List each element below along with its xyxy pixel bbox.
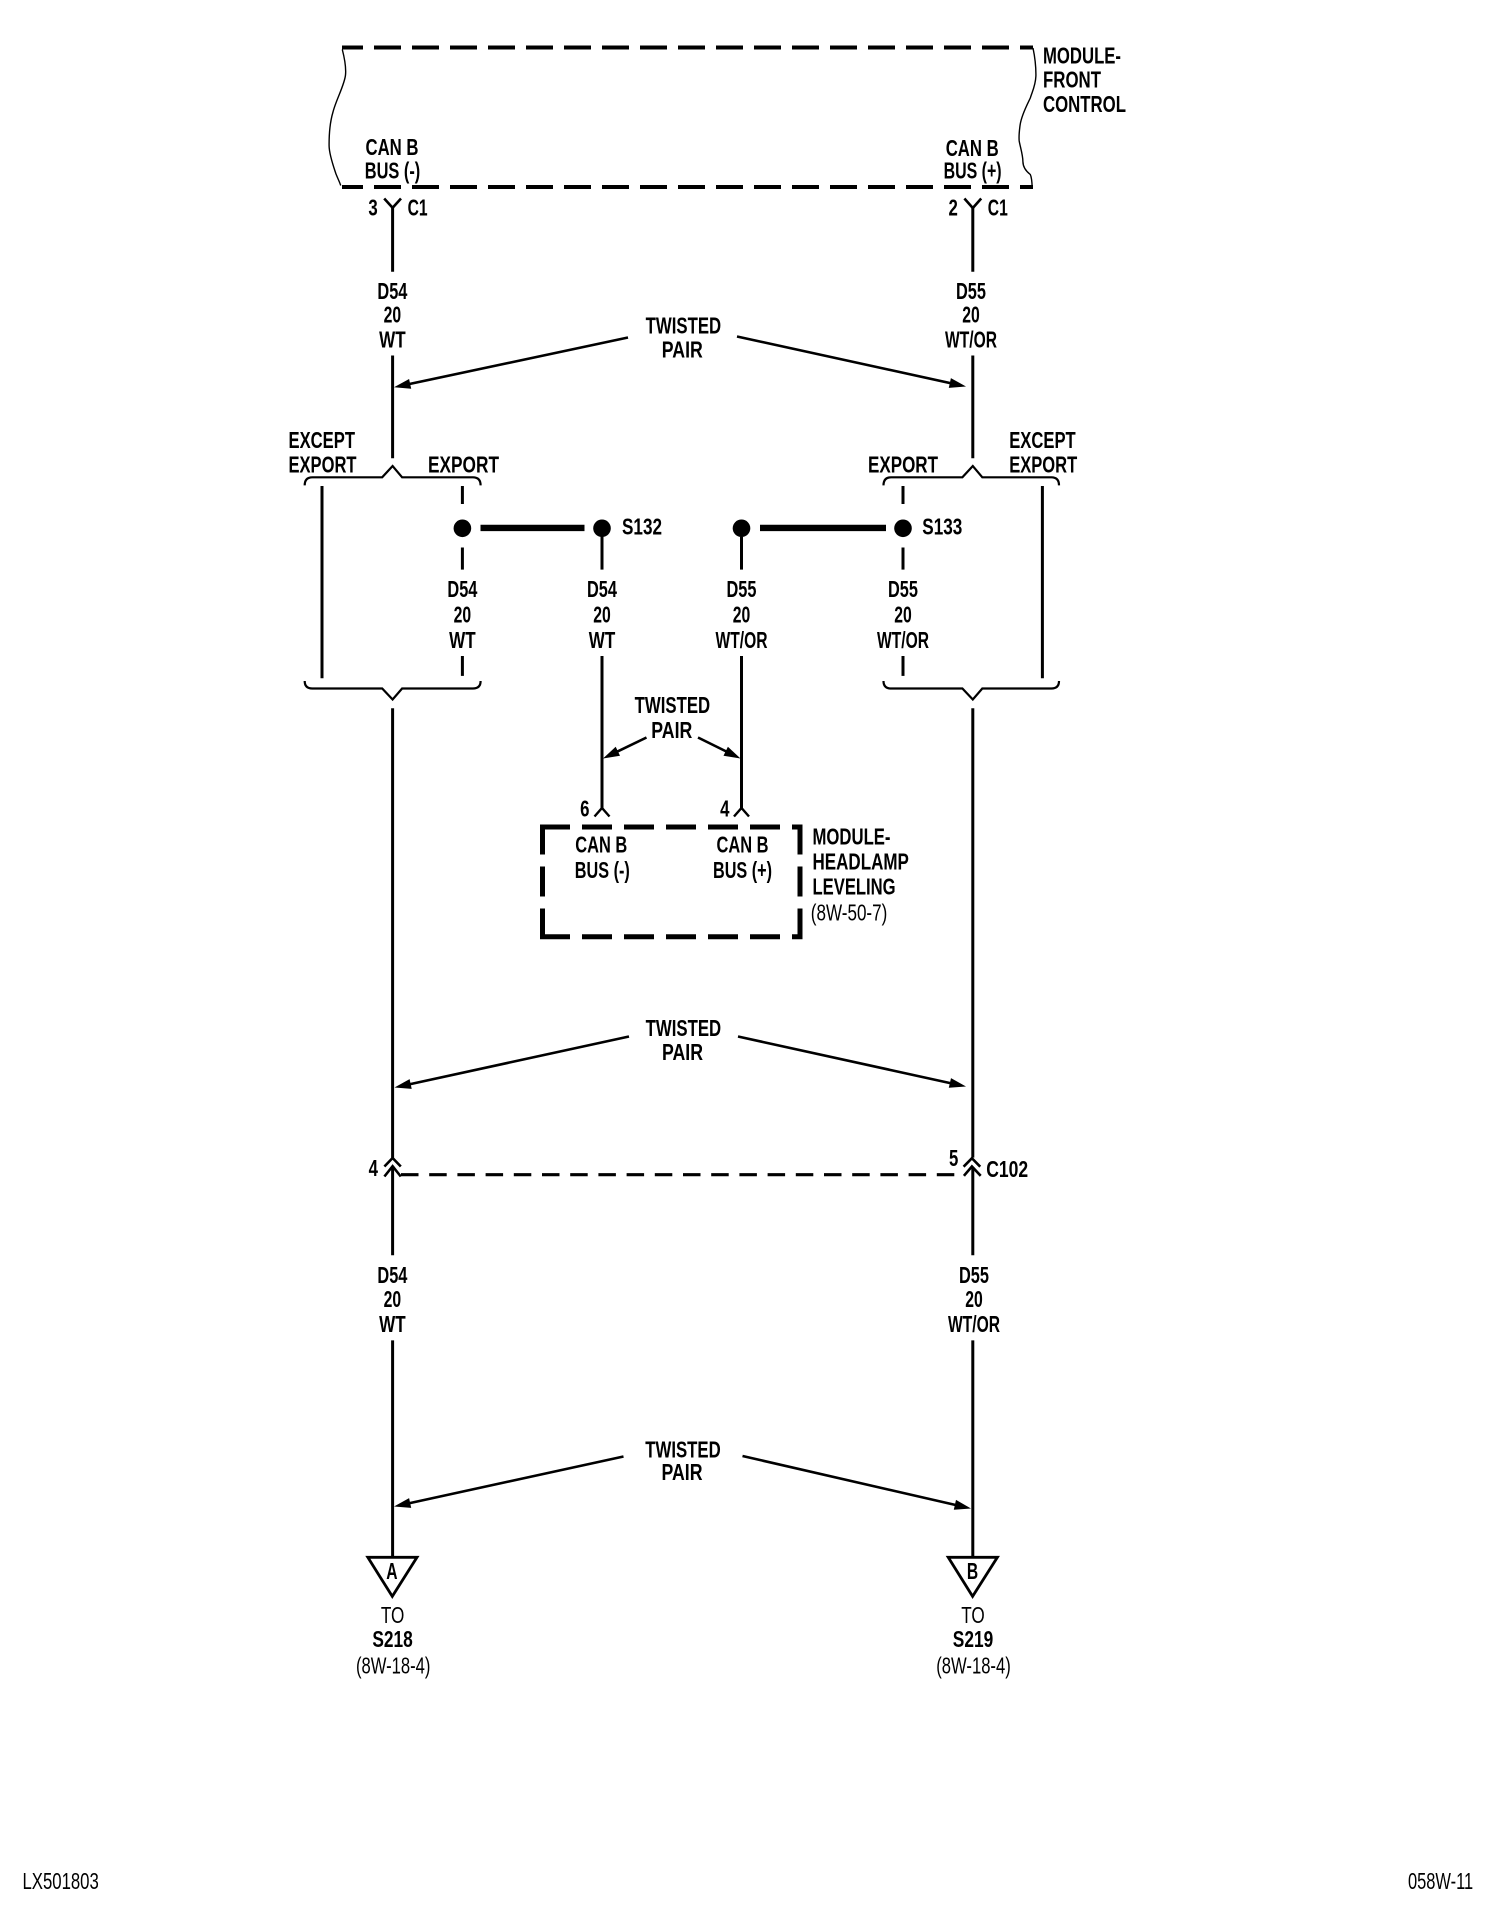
svg-text:FRONT: FRONT <box>1043 66 1101 92</box>
pin label CAN B BUS (-) headlamp <box>575 831 630 883</box>
svg-text:BUS (-): BUS (-) <box>365 158 421 184</box>
off-page triangle B <box>948 1557 997 1596</box>
twisted pair 2 left arrow <box>603 738 647 759</box>
svg-text:EXPORT: EXPORT <box>289 452 357 478</box>
wire D55 lower segment 2 <box>971 1340 974 1557</box>
wire D54 upper segment 2 <box>391 356 394 459</box>
svg-text:2: 2 <box>949 196 958 221</box>
svg-text:WT: WT <box>379 327 406 353</box>
wire tap to pin 4 segments <box>740 537 743 808</box>
svg-text:PAIR: PAIR <box>662 1039 703 1065</box>
wire except-export branch left <box>321 486 324 678</box>
twisted pair 3 right arrow <box>738 1037 966 1088</box>
connector C1 pin 2 symbol <box>964 199 981 209</box>
connector pin 6 symbol <box>595 808 610 817</box>
svg-text:WT: WT <box>589 627 616 653</box>
svg-text:PAIR: PAIR <box>662 1459 703 1485</box>
svg-text:S133: S133 <box>922 514 962 540</box>
wire D55 lower segment 1 <box>971 1167 974 1255</box>
svg-text:D54: D54 <box>447 576 477 602</box>
wire D55 upper segment 2 <box>971 356 974 459</box>
svg-text:D55: D55 <box>888 576 918 602</box>
wire label D55 20 WT/OR export branch <box>877 576 929 653</box>
svg-text:5: 5 <box>949 1146 958 1171</box>
svg-text:20: 20 <box>593 602 611 628</box>
svg-text:(8W-18-4): (8W-18-4) <box>936 1653 1011 1679</box>
wire label D54 20 WT export branch <box>447 576 477 653</box>
label TO S219 (8W-18-4) <box>936 1602 1011 1679</box>
wire D54 mid section left <box>391 708 394 1157</box>
wire label D54 20 WT upper left <box>377 278 407 353</box>
module Front Control torn left edge <box>329 50 346 186</box>
connector C102 pin 5 symbol <box>964 1158 981 1176</box>
brace top right <box>884 466 1060 485</box>
wire D55 upper segment 1 <box>971 207 974 272</box>
svg-text:TWISTED: TWISTED <box>646 313 722 339</box>
svg-text:S218: S218 <box>372 1626 413 1652</box>
label MODULE- FRONT CONTROL <box>1043 42 1126 117</box>
wire tap to pin 6 segments <box>601 537 604 808</box>
svg-text:B: B <box>967 1559 978 1585</box>
svg-text:(8W-18-4): (8W-18-4) <box>356 1653 431 1679</box>
svg-text:A: A <box>386 1559 397 1585</box>
label twisted pair 4 <box>645 1436 721 1484</box>
svg-text:6: 6 <box>580 797 589 822</box>
svg-text:20: 20 <box>384 302 402 328</box>
svg-text:(8W-50-7): (8W-50-7) <box>811 900 888 926</box>
wire label D54 20 WT tap <box>587 576 617 653</box>
svg-text:WT: WT <box>449 627 476 653</box>
svg-text:LEVELING: LEVELING <box>813 873 896 899</box>
label MODULE-HEADLAMP LEVELING (8W-50-7) <box>811 824 909 926</box>
label EXCEPT EXPORT left <box>289 427 357 478</box>
svg-text:WT/OR: WT/OR <box>877 627 929 653</box>
svg-text:20: 20 <box>384 1286 402 1312</box>
label twisted pair 3 <box>646 1015 722 1065</box>
svg-text:EXPORT: EXPORT <box>428 452 499 478</box>
module Front Control torn right edge <box>1019 48 1036 188</box>
svg-text:LX501803: LX501803 <box>23 1868 99 1894</box>
twisted pair 3 left arrow <box>395 1037 630 1089</box>
connector C102 pin 4 symbol <box>384 1158 400 1177</box>
wire except-export branch right <box>1041 486 1044 678</box>
svg-text:PAIR: PAIR <box>662 337 703 363</box>
label twisted pair 1 <box>646 313 722 363</box>
svg-text:D55: D55 <box>727 576 757 602</box>
svg-text:EXCEPT: EXCEPT <box>289 427 356 453</box>
svg-text:CAN B: CAN B <box>717 831 769 857</box>
connector C102 dashed link line <box>401 1173 966 1176</box>
svg-text:20: 20 <box>733 602 751 628</box>
svg-text:BUS (+): BUS (+) <box>944 158 1002 184</box>
twisted pair 2 right arrow <box>698 738 741 759</box>
svg-text:BUS (+): BUS (+) <box>713 857 772 883</box>
svg-text:S132: S132 <box>622 514 662 540</box>
wire D54 upper segment 1 <box>391 207 394 272</box>
off-page triangle A <box>368 1557 417 1596</box>
svg-text:S219: S219 <box>953 1626 993 1652</box>
svg-text:20: 20 <box>894 602 912 628</box>
svg-text:WT/OR: WT/OR <box>945 327 997 353</box>
svg-text:D55: D55 <box>956 278 986 304</box>
connector pin 4 symbol <box>734 808 749 817</box>
connector C1 pin 3 symbol <box>384 199 401 208</box>
svg-text:CAN B: CAN B <box>366 134 419 160</box>
svg-text:PAIR: PAIR <box>651 717 692 743</box>
svg-text:WT/OR: WT/OR <box>716 627 768 653</box>
svg-text:EXCEPT: EXCEPT <box>1009 427 1075 453</box>
svg-text:C1: C1 <box>408 194 428 220</box>
svg-text:TWISTED: TWISTED <box>635 692 711 718</box>
wire label D54 20 WT lower <box>377 1262 407 1337</box>
svg-text:TO: TO <box>961 1602 985 1628</box>
twisted pair 1 right arrow <box>737 337 966 388</box>
label twisted pair 2 <box>635 692 711 743</box>
svg-text:20: 20 <box>965 1286 983 1312</box>
brace bottom left <box>305 681 481 700</box>
svg-text:TO: TO <box>381 1602 405 1628</box>
svg-text:WT: WT <box>379 1311 406 1337</box>
pin label CAN B BUS (+) headlamp <box>713 831 772 883</box>
svg-text:HEADLAMP: HEADLAMP <box>813 849 909 875</box>
svg-text:D55: D55 <box>959 1262 989 1288</box>
pin label CAN B BUS (-) <box>365 134 421 184</box>
svg-text:WT/OR: WT/OR <box>948 1311 1000 1337</box>
svg-text:4: 4 <box>369 1157 379 1182</box>
wire label D55 20 WT/OR upper right <box>945 278 997 353</box>
twisted pair 1 left arrow <box>394 338 628 389</box>
svg-text:EXPORT: EXPORT <box>1009 452 1077 478</box>
label EXCEPT EXPORT right <box>1009 427 1077 478</box>
svg-text:D54: D54 <box>377 1262 407 1288</box>
pin label CAN B BUS (+) <box>944 135 1002 184</box>
wire export branch right segments <box>902 486 905 676</box>
splice S132 dot right <box>593 520 611 538</box>
svg-text:D54: D54 <box>587 576 617 602</box>
svg-text:C1: C1 <box>988 195 1008 221</box>
svg-text:MODULE-: MODULE- <box>813 824 891 850</box>
svg-text:D54: D54 <box>377 278 407 304</box>
svg-text:20: 20 <box>454 602 472 628</box>
wire export branch left segments <box>461 486 464 676</box>
svg-text:CAN B: CAN B <box>575 831 627 857</box>
module Front Control dashed box bottom border <box>342 185 1033 189</box>
module headlamp leveling dashed box <box>540 825 803 940</box>
wire label D55 20 WT/OR lower <box>948 1262 1000 1337</box>
svg-text:3: 3 <box>368 196 377 221</box>
svg-text:TWISTED: TWISTED <box>646 1015 722 1041</box>
splice S133 dot left <box>733 520 751 538</box>
wire D54 lower segment 2 <box>391 1340 394 1557</box>
wire D54 lower segment 1 <box>391 1166 394 1255</box>
twisted pair 4 right arrow <box>743 1456 972 1510</box>
svg-text:EXPORT: EXPORT <box>868 452 938 478</box>
svg-text:BUS (-): BUS (-) <box>575 857 630 883</box>
splice S132 dot left <box>454 520 472 538</box>
splice S132 link line <box>481 525 585 531</box>
svg-text:C102: C102 <box>986 1156 1028 1182</box>
splice S133 link line <box>760 525 886 531</box>
svg-text:MODULE-: MODULE- <box>1043 42 1121 68</box>
brace bottom right <box>884 681 1060 700</box>
svg-text:20: 20 <box>962 302 980 328</box>
wire D55 mid section right <box>971 708 974 1157</box>
twisted pair 4 left arrow <box>394 1457 624 1508</box>
brace top left <box>305 466 481 485</box>
svg-text:058W-11: 058W-11 <box>1408 1868 1473 1894</box>
label TO S218 (8W-18-4) <box>356 1602 431 1679</box>
svg-text:CONTROL: CONTROL <box>1043 91 1126 117</box>
module Front Control dashed box top border <box>342 46 1033 50</box>
splice S133 dot right <box>894 520 912 538</box>
wire label D55 20 WT/OR tap <box>716 576 768 653</box>
svg-text:4: 4 <box>720 797 730 822</box>
